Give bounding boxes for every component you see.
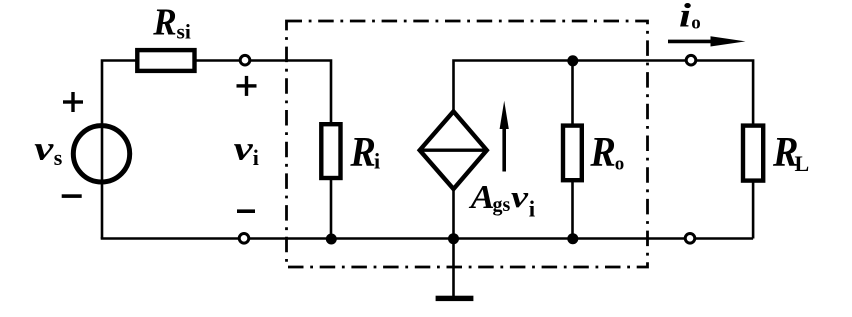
svg-text:gs: gs xyxy=(493,194,511,216)
svg-text:A: A xyxy=(469,179,495,216)
label minus vi xyxy=(237,209,255,213)
wire: dependent source lower lead down to ground xyxy=(452,185,455,297)
amplifier dash-dot box xyxy=(287,21,648,267)
resistor Ro xyxy=(563,126,582,181)
label plus vi xyxy=(237,76,257,96)
wire: Ri lower lead xyxy=(330,178,333,239)
label plus vs xyxy=(63,92,83,112)
svg-text:i: i xyxy=(679,0,692,35)
svg-text:i: i xyxy=(529,196,536,221)
svg-text:i: i xyxy=(374,149,380,174)
svg-text:v: v xyxy=(234,131,254,168)
terminal: input top xyxy=(240,55,250,65)
terminal: input bottom xyxy=(239,234,249,244)
resistor RL xyxy=(743,126,763,181)
svg-text:s: s xyxy=(54,145,63,170)
node: Ro top junction xyxy=(567,55,578,66)
wire: RL branch lower lead xyxy=(752,180,755,239)
ground xyxy=(436,296,474,301)
dependent source mid bar xyxy=(420,148,487,151)
terminal: output top xyxy=(686,55,696,65)
svg-text:o: o xyxy=(615,154,625,175)
svg-text:o: o xyxy=(691,13,701,34)
wire: top-left rail from vs through Rsi to Ri xyxy=(102,61,331,239)
svg-text:v: v xyxy=(34,131,54,168)
voltage source vs (circle) xyxy=(73,126,129,182)
node: Ro bottom junction xyxy=(567,233,578,244)
terminal: output bottom xyxy=(685,234,695,244)
svg-text:v: v xyxy=(511,179,530,214)
svg-text:si: si xyxy=(177,20,191,44)
svg-text:i: i xyxy=(253,145,259,170)
arrow io xyxy=(668,40,714,44)
node: Ri bottom junction xyxy=(326,234,337,245)
dependent current source U1 (diamond) xyxy=(420,111,487,189)
svg-text:R: R xyxy=(349,130,375,176)
wire: dependent source riser and top-right rail to RL xyxy=(454,61,754,126)
svg-text:R: R xyxy=(152,2,176,44)
current arrow inside source xyxy=(502,127,506,172)
svg-text:L: L xyxy=(795,151,810,176)
resistor Ri xyxy=(321,124,340,178)
node: source bottom junction xyxy=(448,233,459,244)
label minus vs xyxy=(62,194,82,198)
wire: bottom rail xyxy=(101,237,753,240)
wire: Ro branch vertical xyxy=(571,61,574,239)
svg-text:R: R xyxy=(589,130,615,176)
resistor Rsi xyxy=(137,50,194,71)
